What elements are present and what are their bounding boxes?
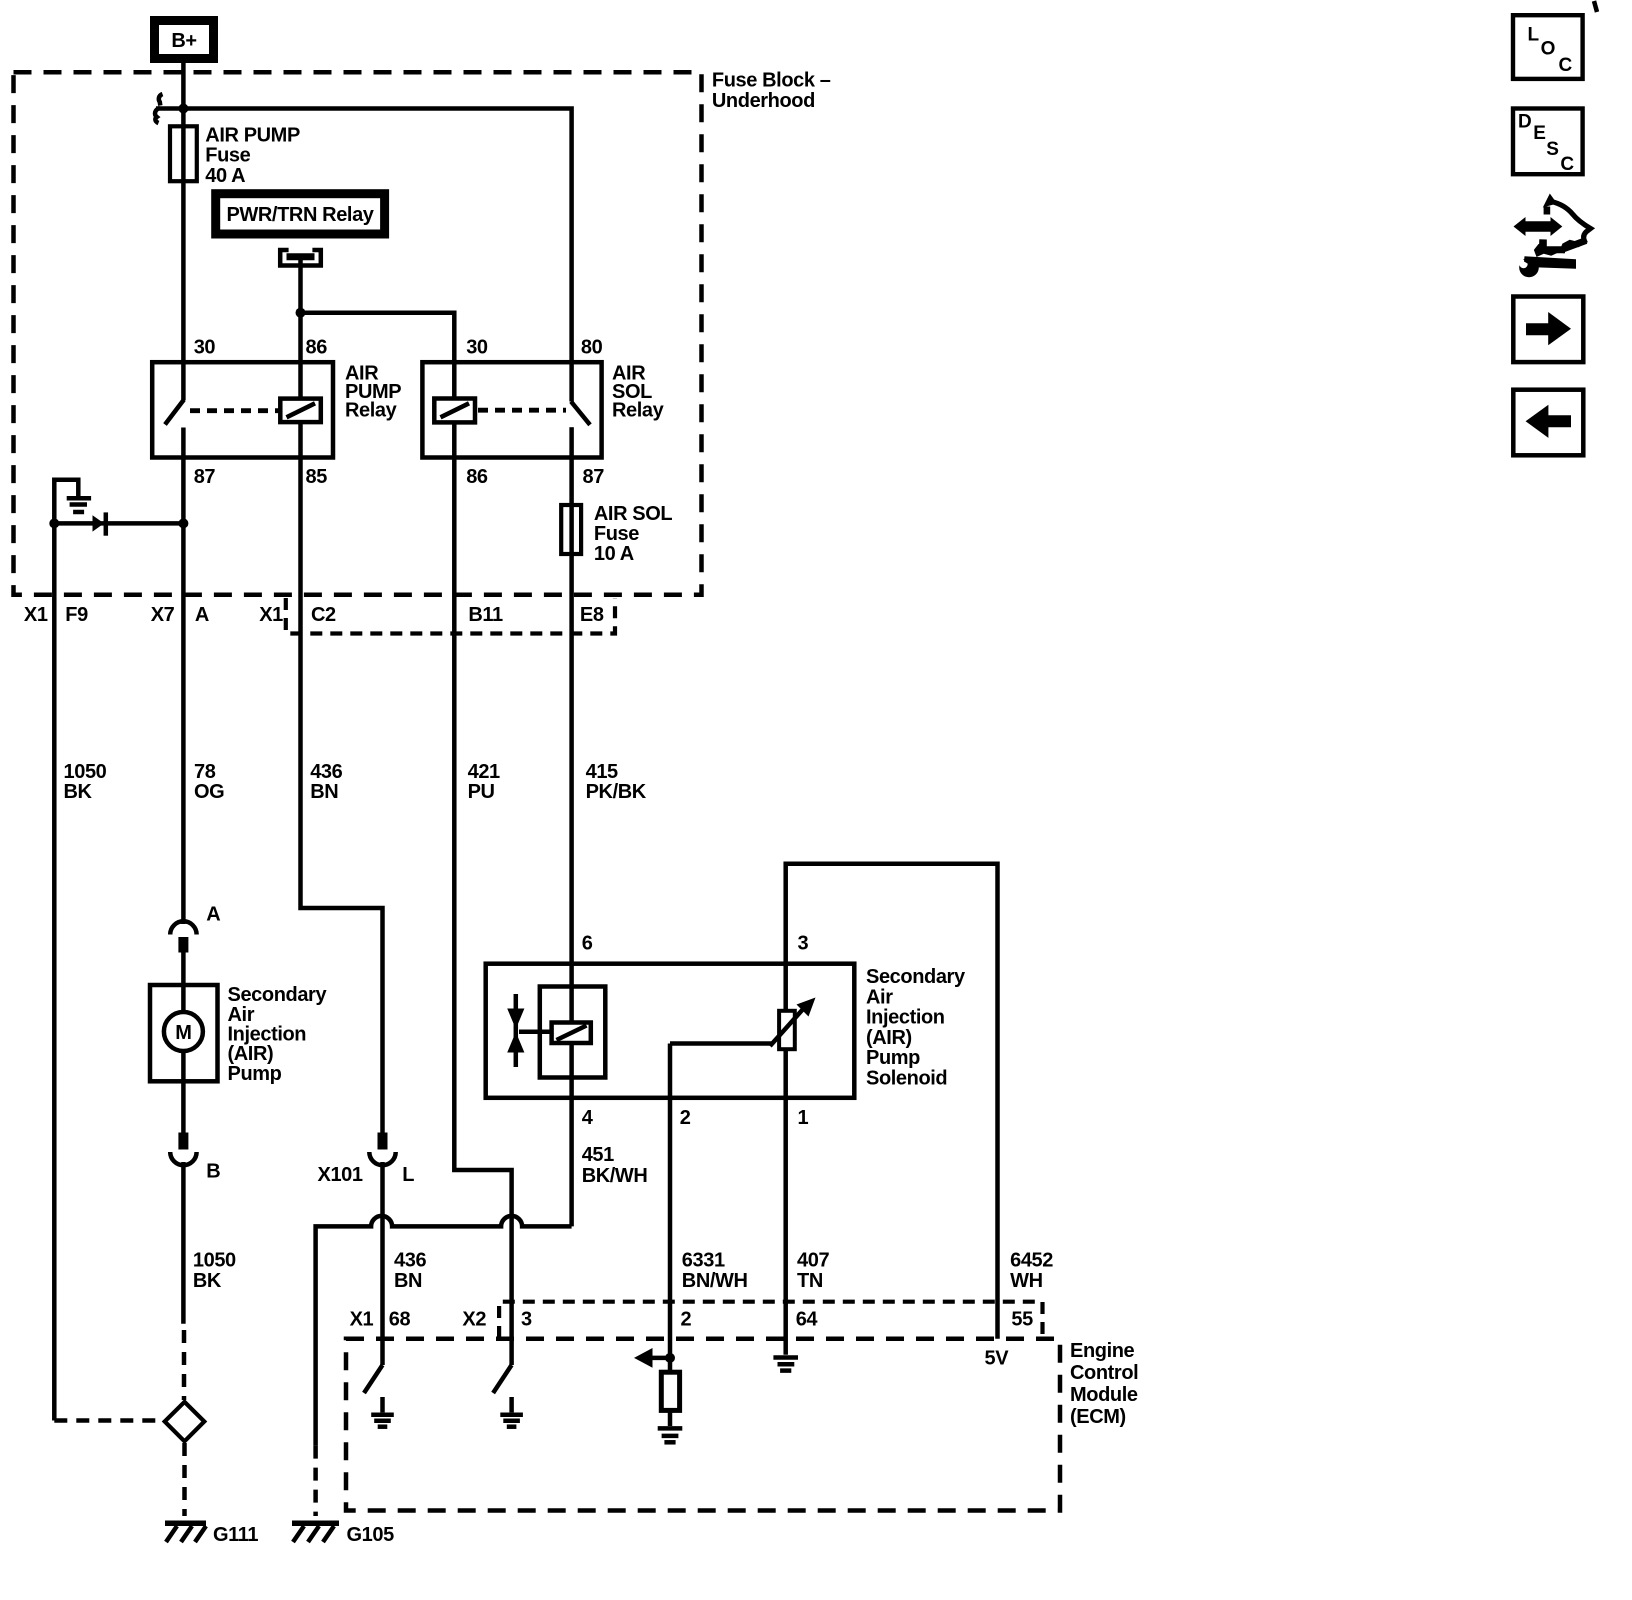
svg-text:X1: X1 [24,604,48,626]
dashed wire 1050 BK horizontal to diamond [54,1418,164,1423]
dashed wire to splice diamond [182,1330,187,1400]
svg-text:BK: BK [64,781,93,803]
svg-text:B+: B+ [171,30,196,52]
relay AIR PUMP actuating dashed line [190,408,280,413]
relay AIR SOL switch pin 80-87 [571,362,590,458]
svg-text:Underhood: Underhood [712,90,815,112]
wire label 78 OG [194,761,224,803]
svg-text:E8: E8 [580,604,604,626]
svg-text:X7: X7 [151,604,175,626]
wire: bracket stem down to junction [298,257,303,364]
diode [93,512,106,535]
svg-text:Solenoid: Solenoid [866,1068,947,1090]
svg-text:6452: 6452 [1010,1250,1053,1272]
dashed wire to G105 [313,1446,318,1516]
svg-text:PK/BK: PK/BK [586,781,647,803]
svg-text:L: L [402,1164,414,1186]
svg-text:F9: F9 [65,604,88,626]
PWR/TRN relay output terminal bracket [280,250,321,266]
svg-text:Fuse: Fuse [205,145,250,167]
svg-text:(AIR): (AIR) [866,1027,912,1049]
icon left arrow box [1513,390,1583,456]
connector A female arc [170,921,196,934]
svg-text:B11: B11 [468,604,503,626]
ECM dashed border [346,1339,1060,1511]
svg-text:A: A [195,604,209,626]
svg-text:421: 421 [468,761,500,783]
svg-text:78: 78 [194,761,216,783]
svg-text:WH: WH [1010,1270,1043,1292]
corner tick mark [1594,1,1597,12]
svg-text:BN: BN [394,1270,422,1292]
svg-text:40 A: 40 A [205,165,245,187]
svg-text:55: 55 [1011,1309,1033,1331]
wire label 451 BK/WH [582,1144,648,1187]
svg-text:6331: 6331 [682,1250,725,1272]
svg-text:BN/WH: BN/WH [682,1270,748,1292]
svg-text:C: C [1559,55,1573,76]
svg-text:G111: G111 [213,1524,258,1546]
wire: relay1 pin 87 down to pump connector A [181,458,186,925]
wire: 421 PU relay2 pin 86 down with jog [454,458,511,1366]
svg-text:Relay: Relay [612,400,665,422]
wire label 407 TN [797,1250,829,1292]
svg-text:L: L [1528,24,1540,45]
battery feed B+ box [155,21,214,59]
svg-text:(AIR): (AIR) [228,1043,274,1065]
ECM pin 64 ground [773,1358,798,1371]
label AIR PUMP Relay [345,363,401,422]
connector X101 female arc [369,1152,395,1165]
icon LOC box [1513,15,1583,79]
svg-text:436: 436 [394,1250,426,1272]
label Secondary Air Injection (AIR) Pump Solenoid [866,966,966,1090]
relay AIR SOL pin labels [466,336,604,488]
svg-text:AIR PUMP: AIR PUMP [205,124,300,146]
svg-text:3: 3 [798,932,809,954]
svg-text:C: C [1560,154,1574,175]
wire: pump B down 1050 BK [181,1162,186,1324]
squiggle break symbol [155,94,162,123]
wire label 415 PK/BK [586,761,647,803]
chassis ground G105 [292,1523,394,1546]
svg-text:G105: G105 [347,1524,395,1546]
svg-text:6: 6 [582,932,593,954]
icon swap with wrench [1514,194,1591,278]
svg-text:Injection: Injection [866,1007,945,1029]
svg-text:436: 436 [310,761,342,783]
ECM connector X2 dashed bracket [499,1302,1042,1338]
wire label 1050 BK [64,761,107,803]
svg-text:BK/WH: BK/WH [582,1165,648,1187]
svg-text:Control: Control [1070,1362,1138,1384]
wire: solenoid pin 3 up and over 6452 WH [786,864,998,1339]
node: B+ branch junction [178,104,188,114]
ground symbol inside fuse block [54,480,91,524]
solenoid position sensor wiper [670,964,816,1098]
wire: 1050 BK from ground junction down [52,523,57,1420]
label Secondary Air Injection (AIR) Pump [228,984,328,1085]
label AIR SOL Fuse 10 A [594,503,672,565]
wire: solenoid pin 1 down 407 TN [783,1098,788,1355]
ECM pin 2 resistor [661,1372,679,1410]
svg-text:O: O [1541,38,1555,59]
wire: ground branch with diode to pin 87 node [54,521,183,526]
svg-text:4: 4 [582,1107,594,1129]
node: left ground junction [49,518,59,528]
connector A male stub [178,937,188,953]
svg-text:Secondary: Secondary [866,966,966,988]
relay AIR SOL box [422,362,601,457]
svg-text:Secondary: Secondary [228,984,328,1006]
fuse F1 AIR PUMP 40 A [170,126,197,181]
svg-text:M: M [175,1022,191,1044]
svg-text:87: 87 [194,466,216,488]
ECM pin 2 arrow [634,1348,675,1368]
svg-text:64: 64 [796,1309,819,1331]
wire: junction to AIR SOL relay pin 30 [301,313,455,364]
icon DESC box [1513,109,1583,175]
svg-text:1050: 1050 [64,761,107,783]
svg-text:85: 85 [306,466,328,488]
ECM pin labels X1 68 X2 3 2 64 55 [350,1309,1034,1331]
relay AIR PUMP box [152,362,333,457]
wire label 436 BN lower [394,1250,426,1292]
splice diamond [165,1402,205,1441]
svg-text:S: S [1546,139,1558,160]
solenoid coil assembly [540,964,606,1098]
label AIR SOL Relay [612,363,665,422]
svg-text:Engine: Engine [1070,1340,1135,1362]
svg-text:3: 3 [521,1309,532,1331]
wire label 436 BN [310,761,342,803]
wire: solenoid pin 2 down [668,1044,673,1098]
wire: B+ down through AIR PUMP fuse to relay pin 30 [181,63,186,364]
solenoid check valve symbol [507,994,553,1067]
ECM switch to ground pin 68 [364,1365,394,1427]
connector B male stub [178,1133,188,1150]
label Fuse Block - Underhood [712,70,831,112]
chassis ground G111 [165,1523,258,1546]
wire: solenoid pin 2 down 6331 BN/WH [668,1098,673,1372]
svg-text:Pump: Pump [228,1063,282,1085]
solenoid box Secondary Air Injection Pump Solenoid [486,964,855,1098]
relay AIR SOL actuating dashed line [478,408,566,413]
svg-text:30: 30 [466,336,488,358]
svg-text:C2: C2 [311,604,336,626]
svg-text:A: A [206,904,220,926]
svg-text:X1: X1 [259,604,283,626]
svg-text:87: 87 [583,466,605,488]
svg-text:AIR SOL: AIR SOL [594,503,672,525]
wire: 436 BN relay1 pin 85 down with jog to X101 [301,458,383,1133]
svg-text:Pump: Pump [866,1047,920,1069]
pump motor box [150,953,218,1133]
connector X1 dashed bracket [286,598,615,634]
relay AIR SOL coil pin 30-86 [434,362,475,458]
svg-text:5V: 5V [985,1348,1010,1370]
svg-text:PU: PU [468,781,495,803]
svg-text:BN: BN [310,781,338,803]
wire label 6331 BN/WH [682,1250,748,1292]
svg-text:86: 86 [466,466,488,488]
svg-text:X2: X2 [462,1309,486,1331]
svg-text:68: 68 [389,1309,411,1331]
svg-text:Fuse: Fuse [594,523,639,545]
svg-text:80: 80 [581,336,603,358]
svg-text:Relay: Relay [345,400,398,422]
wire label 1050 BK lower [193,1250,236,1292]
label Engine Control Module (ECM) [1070,1340,1138,1428]
node: pin 87 junction [178,518,188,528]
svg-text:(ECM): (ECM) [1070,1406,1126,1428]
svg-text:415: 415 [586,761,618,783]
svg-text:TN: TN [797,1270,823,1292]
svg-text:PWR/TRN Relay: PWR/TRN Relay [226,204,374,226]
fuse F2 AIR SOL 10 A [561,458,581,964]
fuse block connector labels X1 F9 X7 A X1 C2 B11 E8 [24,604,604,626]
svg-text:B: B [206,1161,220,1183]
svg-text:86: 86 [306,336,328,358]
svg-text:30: 30 [194,336,216,358]
svg-text:X101: X101 [318,1164,363,1186]
relay AIR PUMP switch pin 30-87 [165,362,184,458]
icon right arrow box [1513,297,1583,363]
connector B female arc [170,1152,196,1165]
svg-text:1050: 1050 [193,1250,236,1272]
svg-text:X1: X1 [350,1309,374,1331]
connector X101 male stub [378,1133,388,1150]
svg-text:OG: OG [194,781,224,803]
svg-text:D: D [1518,112,1531,133]
svg-text:Module: Module [1070,1384,1138,1406]
wire: junction horizontal with hop arcs to G105 drop [316,1216,572,1446]
node: coil feed junction [296,308,306,318]
solenoid pin labels 6 3 4 2 1 [582,932,809,1129]
svg-text:Air: Air [866,986,893,1008]
svg-text:10 A: 10 A [594,543,634,565]
wire: 436 BN X101 to ECM pin 68 [380,1162,385,1365]
dashed wire diamond to G111 [182,1443,187,1516]
relay AIR PUMP pin labels [194,336,328,488]
PWR/TRN Relay label box [216,194,385,234]
svg-text:451: 451 [582,1144,614,1166]
svg-text:1: 1 [798,1107,809,1129]
svg-text:Fuse Block –: Fuse Block – [712,70,831,92]
svg-text:2: 2 [681,1309,692,1331]
wire: branch from B+ junction to AIR SOL relay pin 80 [156,109,572,365]
label AIR PUMP Fuse 40 A [205,124,300,187]
wire label 6452 WH [1010,1250,1053,1292]
ECM pin 2 ground [658,1410,683,1442]
wire label 421 PU [468,761,500,803]
relay AIR PUMP coil [280,362,321,458]
svg-text:407: 407 [797,1250,829,1272]
ECM switch to ground pin 3 [493,1365,523,1427]
svg-text:BK: BK [193,1270,222,1292]
svg-text:2: 2 [680,1107,691,1129]
fuse block underhood dashed border [14,72,702,594]
wire: 451 BK/WH from solenoid pin 4 to junction [569,1098,574,1227]
svg-text:E: E [1533,123,1545,144]
